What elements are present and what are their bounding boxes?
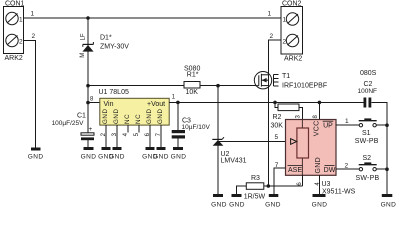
svg-text:+: + [89, 126, 93, 133]
svg-text:LMV431: LMV431 [221, 158, 247, 165]
switch S1 SW-PB [355, 118, 379, 144]
wire U1 pin6 [149, 125, 151, 147]
capacitor C2 100NF [358, 70, 378, 108]
svg-text:GND: GND [146, 108, 153, 124]
svg-text:U1 78L05: U1 78L05 [99, 89, 129, 96]
svg-text:2: 2 [283, 39, 287, 46]
wire R2 right lead into U3 pot [299, 107, 302, 128]
svg-text:100µF/25V: 100µF/25V [52, 120, 85, 127]
ground (U1 pin7) [153, 147, 169, 161]
ground (ASE node) [265, 194, 281, 208]
svg-text:CON1: CON1 [5, 1, 25, 8]
resistor R2 30K [271, 104, 300, 129]
svg-text:ZMY-30V: ZMY-30V [100, 44, 129, 51]
svg-text:2: 2 [32, 33, 36, 40]
ground (U2) [211, 194, 227, 208]
svg-text:30K: 30K [271, 122, 284, 129]
svg-text:NC: NC [124, 114, 131, 124]
svg-text:GND: GND [381, 201, 397, 208]
svg-text:UP: UP [323, 122, 333, 129]
svg-text:ASE: ASE [288, 167, 302, 174]
wire U1 pin7 [160, 125, 162, 147]
ground (CON1-2) [28, 148, 44, 161]
svg-text:R3: R3 [251, 175, 260, 182]
IC U3 X9511-WS pushpot [286, 120, 337, 176]
wire U1 pin3 [116, 125, 118, 147]
node junction at (88,18) [86, 16, 90, 20]
svg-text:Vin: Vin [104, 101, 114, 108]
svg-text:GND: GND [153, 154, 169, 161]
wire U2 cathode drop to GND [217, 86, 219, 194]
svg-text:+Vout: +Vout [147, 101, 165, 108]
svg-text:1: 1 [345, 118, 349, 125]
svg-text:X9511-WS: X9511-WS [322, 189, 356, 196]
op-amp U1 78L05 regulator box [99, 89, 170, 125]
wire CON2-2 to T1 drain [269, 40, 282, 75]
ground (U1 pin6) [142, 147, 158, 161]
svg-text:S2: S2 [363, 155, 372, 162]
wire U2 ref tap to wiper arrow [218, 141, 291, 143]
svg-text:VCC: VCC [314, 121, 321, 137]
svg-text:1: 1 [19, 17, 23, 24]
svg-text:LF: LF [81, 33, 87, 40]
node junction at (387,169.2) [385, 167, 389, 171]
switch S2 SW-PB [356, 155, 380, 182]
svg-text:GND: GND [211, 201, 227, 208]
svg-text:2: 2 [270, 33, 274, 40]
svg-text:GND: GND [81, 154, 97, 161]
wire U3 ASE to GND drop [274, 168, 285, 194]
svg-text:IRF1010EPBF: IRF1010EPBF [282, 83, 327, 90]
wire U3 DW to S2 [336, 168, 359, 170]
wire CON1-2 to GND [24, 41, 36, 148]
svg-text:NC: NC [135, 114, 142, 124]
svg-text:GND: GND [102, 108, 109, 124]
wire T1 source down to R3 node [268, 86, 270, 186]
T1 tab symbol [274, 75, 279, 87]
svg-text:SW-PB: SW-PB [356, 175, 380, 182]
resistor R1 10K [184, 66, 200, 97]
svg-text:U3: U3 [322, 181, 331, 188]
svg-text:GND: GND [315, 157, 322, 173]
wire S1 to rail [376, 124, 387, 126]
wire U1 pin4 NC stub [127, 125, 129, 132]
wire R1 to MOSFET gate [200, 85, 256, 87]
wire VCC drop to U3 [318, 102, 320, 119]
ground (C1) [81, 147, 97, 161]
ground (R3 left) [229, 194, 245, 208]
svg-text:GND: GND [157, 108, 164, 124]
svg-text:C1: C1 [77, 113, 86, 120]
node junction at (177.9,102.4) [176, 101, 180, 105]
svg-text:2: 2 [19, 39, 23, 46]
svg-text:1R/5W: 1R/5W [244, 193, 266, 200]
svg-text:GND: GND [109, 154, 125, 161]
svg-text:ARK2: ARK2 [284, 56, 302, 63]
wire C3 drop [177, 102, 179, 130]
transistor U2 LMV431 shunt reference [212, 137, 246, 165]
wire R3 left lead to GND [236, 186, 246, 194]
wire U3 GND pin4 to ground [319, 175, 321, 194]
node junction at (88,85.7) [86, 84, 90, 88]
wire +5V rail [169, 101, 363, 103]
node junction at (268.6,186) [267, 184, 271, 188]
capacitor C1 100uF/25V [52, 113, 94, 148]
svg-text:S1: S1 [362, 130, 371, 137]
svg-text:R1*: R1* [187, 72, 199, 79]
transistor T1 IRF1010EPBF MOSFET [254, 72, 271, 89]
ground (U3 pin4) [312, 194, 328, 208]
svg-text:GND: GND [113, 108, 120, 124]
wire R2 left lead [275, 102, 278, 107]
svg-text:GND: GND [171, 154, 187, 161]
svg-text:GND: GND [312, 201, 328, 208]
svg-text:2: 2 [345, 163, 349, 170]
diode D1 zener ZMY-30V [82, 42, 93, 52]
wire net1 top rail CON1-1 to CON2-1 [24, 17, 282, 19]
ground (U1 pin2) [98, 147, 114, 161]
capacitor C3 10uF/10V [172, 117, 211, 147]
wire U1 pin2 [105, 125, 107, 147]
svg-text:10µF/10V: 10µF/10V [182, 124, 211, 131]
svg-text:GND: GND [28, 154, 44, 161]
wire gate rail (88,85.7) to R1 [88, 85, 184, 87]
svg-text:GND: GND [265, 201, 281, 208]
wire U1 pin5 NC stub [138, 125, 140, 132]
wire diode branch vertical [87, 18, 89, 133]
svg-text:100NF: 100NF [358, 88, 378, 95]
node junction at (275,102.4) [273, 101, 277, 105]
wire to U1 Vin pin8 [88, 102, 100, 104]
svg-text:DW: DW [324, 167, 336, 174]
node junction at (218,85.7) [216, 84, 220, 88]
wire R3 right lead to pot low pin6 [264, 185, 303, 187]
svg-text:D1*: D1* [100, 35, 112, 42]
svg-text:1: 1 [283, 17, 287, 24]
svg-text:T1: T1 [282, 73, 290, 80]
node junction at (387,125.2) [385, 123, 389, 127]
wire S2 to rail [376, 168, 387, 170]
node junction Vin at (88,102.6) [86, 101, 90, 105]
svg-text:5: 5 [275, 134, 279, 141]
svg-text:CON2: CON2 [282, 1, 302, 8]
svg-text:GND: GND [229, 201, 245, 208]
svg-text:SW-PB: SW-PB [355, 138, 379, 145]
wire C2 right to S rail [371, 102, 387, 194]
resistor R3 1R/5W [244, 175, 266, 201]
ground (U1 pin3) [109, 147, 125, 161]
svg-text:C2: C2 [364, 81, 373, 88]
connector CON2 [281, 1, 303, 63]
connector CON1 [4, 1, 25, 63]
svg-text:ARK2: ARK2 [5, 55, 23, 62]
svg-text:10K: 10K [186, 89, 199, 96]
svg-text:M: M [80, 53, 86, 58]
svg-text:1: 1 [31, 11, 35, 18]
wire U3 UP to S1 [336, 124, 359, 126]
ground (S rail) [381, 194, 397, 208]
svg-text:R2: R2 [273, 114, 282, 121]
svg-text:1: 1 [268, 11, 272, 18]
svg-text:080S: 080S [360, 70, 377, 77]
node junction at (319.4,102.4) [318, 101, 322, 105]
ground (C3) [171, 147, 187, 161]
